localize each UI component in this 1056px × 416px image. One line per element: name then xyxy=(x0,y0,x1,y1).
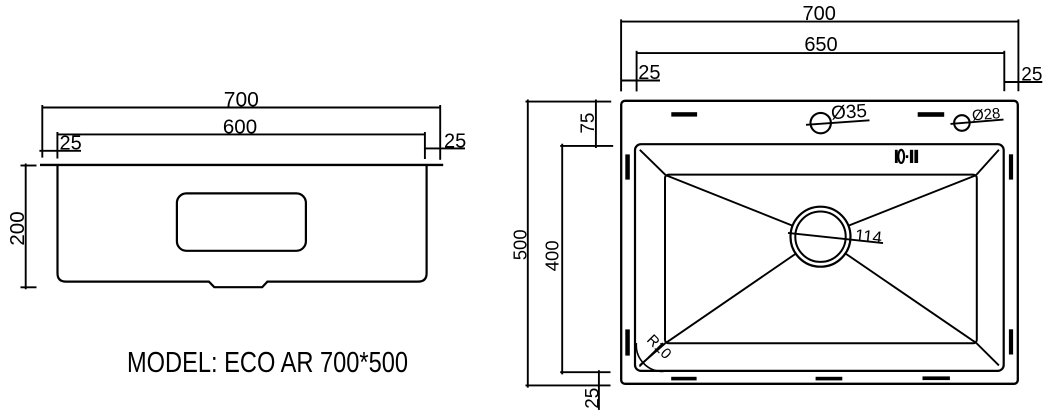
svg-text:700: 700 xyxy=(803,3,836,25)
dim 200 line xyxy=(25,164,27,290)
drain inner circle xyxy=(795,212,845,262)
leader line D35 xyxy=(806,120,870,125)
dim 500 bottom extension xyxy=(526,384,611,386)
dim 700 right extension (front) xyxy=(439,105,441,160)
dim 25 bottom line xyxy=(598,370,600,410)
plan bowl top rounded rect xyxy=(635,144,1004,371)
clip tab top-right (plan) xyxy=(918,112,945,117)
front view drain recess rounded rect xyxy=(177,193,306,250)
fold diagonal from bottom-left corner to drain xyxy=(666,254,796,343)
svg-text:500: 500 xyxy=(509,229,530,260)
front view counter top line xyxy=(40,164,443,166)
svg-text:700: 700 xyxy=(224,88,259,111)
dim 75 / 400 shared extension xyxy=(560,145,613,147)
fold diagonal from top-left corner to drain xyxy=(666,175,793,226)
svg-text:MODEL: ECO AR 700*500: MODEL: ECO AR 700*500 xyxy=(127,347,408,379)
clip tab bottom-middle (plan) xyxy=(816,377,843,381)
dim 75 line xyxy=(595,100,597,149)
dim 25 left line (front) xyxy=(39,150,81,152)
dim 200 top tick xyxy=(21,165,37,167)
R10 corner arc xyxy=(636,343,663,371)
clip tab right-upper (plan) xyxy=(1009,154,1013,179)
svg-text:114: 114 xyxy=(854,226,883,248)
dim 400 bottom extension xyxy=(560,371,610,373)
svg-text:25: 25 xyxy=(582,388,603,409)
faucet hole circle D28 xyxy=(954,115,970,131)
dim 600 line (front) xyxy=(57,133,425,135)
svg-text:600: 600 xyxy=(223,116,257,139)
dim 200 bottom tick xyxy=(21,286,37,288)
dim 400 line xyxy=(561,144,563,375)
plan bowl bottom rect xyxy=(665,175,977,344)
svg-text:200: 200 xyxy=(6,211,29,245)
dim 700 left extension (plan) xyxy=(620,19,622,91)
fold diagonal from bottom-right corner to drain xyxy=(846,254,976,343)
corner stub top-left xyxy=(640,150,666,175)
dim 25 right line (front) xyxy=(425,147,465,149)
dim 500 top extension xyxy=(526,101,612,103)
dim 650 right extension (plan) xyxy=(1003,51,1005,91)
corner stub top-right xyxy=(976,150,999,175)
svg-text:650: 650 xyxy=(804,34,837,56)
corner stub bottom-right xyxy=(976,343,999,365)
svg-text:Ø35: Ø35 xyxy=(830,101,867,124)
dim 700 line (front) xyxy=(42,107,440,109)
svg-text:25: 25 xyxy=(1021,65,1042,86)
dim 650 left extension (plan) xyxy=(636,51,638,92)
clip tab top-left (plan) xyxy=(671,112,697,116)
dim 600 left extension (front) xyxy=(56,132,58,159)
leader line D28 xyxy=(951,120,1004,124)
corner stub bottom-left xyxy=(640,343,666,365)
clip tab right-lower (plan) xyxy=(1009,329,1013,354)
svg-text:75: 75 xyxy=(578,113,599,134)
faucet hole circle D35 xyxy=(811,113,831,133)
dim 700 line (plan) xyxy=(621,21,1018,23)
dim 25 right line (plan top) xyxy=(1004,81,1042,83)
R10 leader line xyxy=(639,343,663,367)
leader line 114 xyxy=(788,233,883,243)
clip tab left-lower (plan) xyxy=(625,329,630,355)
svg-text:Ø28: Ø28 xyxy=(971,105,1001,124)
dim 700 right extension (plan) xyxy=(1017,19,1019,91)
dim 650 line (plan) xyxy=(637,52,1005,54)
dim 700 left extension (front) xyxy=(41,105,43,158)
clip tab bottom-left (plan) xyxy=(671,377,696,381)
clip tab bottom-right (plan) xyxy=(923,376,950,380)
dim 25 left line (plan top) xyxy=(621,80,660,82)
fold diagonal from top-right corner to drain xyxy=(848,175,976,226)
dim 600 right extension (front) xyxy=(424,132,426,159)
dim 500 line xyxy=(527,100,529,388)
front view bowl outline xyxy=(58,165,427,287)
svg-text:400: 400 xyxy=(541,240,562,271)
clip tab left-upper (plan) xyxy=(625,154,630,179)
svg-text:25: 25 xyxy=(60,133,82,155)
drain outer circle xyxy=(791,207,851,267)
overflow logo mark xyxy=(895,150,918,163)
plan rim outer rect xyxy=(621,101,1018,384)
svg-text:25: 25 xyxy=(444,130,466,152)
svg-text:25: 25 xyxy=(638,62,660,84)
